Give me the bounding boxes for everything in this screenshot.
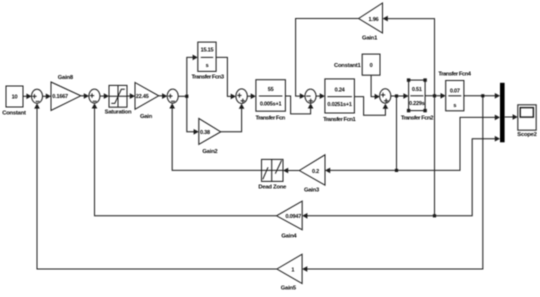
svg-text:0.1667: 0.1667 bbox=[52, 94, 68, 100]
gain Gain5 (1) pointing left bbox=[277, 254, 302, 291]
transfer function Transfer Fcn3 (15.15/s) bbox=[192, 42, 225, 80]
svg-text:Gain8: Gain8 bbox=[58, 75, 74, 81]
svg-text:Gain2: Gain2 bbox=[202, 149, 217, 155]
sum junction SumE (- left, + bottom) bbox=[305, 89, 316, 103]
svg-text:Transfer Fcn2: Transfer Fcn2 bbox=[401, 115, 433, 121]
gain Gain3 (0.2) pointing left bbox=[299, 155, 325, 194]
svg-text:0.229s: 0.229s bbox=[409, 101, 425, 107]
svg-text:10: 10 bbox=[12, 95, 18, 101]
svg-text:Gain1: Gain1 bbox=[362, 36, 378, 42]
svg-text:22.45: 22.45 bbox=[136, 94, 149, 100]
svg-text:15.15: 15.15 bbox=[201, 47, 214, 53]
svg-text:Constant1: Constant1 bbox=[334, 63, 362, 69]
node N4 junction between Transfer Fcn2 and Transfer Fcn4 bbox=[433, 94, 436, 97]
svg-text:1: 1 bbox=[291, 267, 294, 273]
svg-text:0.0251s+1: 0.0251s+1 bbox=[327, 102, 351, 108]
wire Transfer Fcn to SumE bottom (under-route) bbox=[285, 96, 313, 114]
gain Gain4 (0.0947) pointing left bbox=[277, 201, 303, 239]
wire SumD to Transfer Fcn bbox=[247, 93, 256, 99]
node N3 junction on Gain3 row bbox=[395, 169, 398, 172]
gain Gain (22.45) bbox=[135, 83, 159, 120]
sum junction SumB (+ left, - bottom) bbox=[89, 89, 100, 103]
wire Gain4 to SumB bottom bbox=[92, 103, 277, 216]
saturation block Saturation bbox=[105, 85, 132, 115]
wire Constant to SumA bbox=[23, 94, 32, 100]
scope block Scope2 bbox=[517, 105, 536, 138]
node N6 junction after Transfer Fcn4 bbox=[481, 94, 484, 97]
wire node N1 up to Transfer Fcn3 bbox=[187, 55, 198, 97]
wire Gain8 to SumB bbox=[81, 93, 89, 99]
wire Mux to Scope2 bbox=[505, 114, 518, 120]
svg-text:0.51: 0.51 bbox=[412, 87, 422, 93]
wire node N3 to Gain3 bbox=[325, 168, 397, 174]
wire Dead Zone to SumC bottom bbox=[169, 103, 261, 170]
svg-text:0.38: 0.38 bbox=[200, 130, 210, 136]
gain Gain1 (1.96) pointing left bbox=[359, 3, 383, 42]
node N2 junction after SumF bbox=[395, 94, 398, 97]
svg-text:1.96: 1.96 bbox=[369, 17, 379, 23]
wire Gain2 to SumD bottom bbox=[221, 104, 245, 132]
svg-text:0.07: 0.07 bbox=[450, 89, 460, 95]
svg-text:s: s bbox=[206, 63, 209, 69]
wire Constant1 to SumF left bbox=[371, 75, 380, 99]
wire Saturation to Gain bbox=[127, 93, 135, 99]
gain Gain8 (0.1667) bbox=[51, 75, 81, 110]
sum junction SumD (+ +) bbox=[236, 89, 247, 104]
wire SumA to Gain8 bbox=[43, 94, 52, 100]
sum junction SumF (+ +) bbox=[380, 89, 391, 103]
svg-text:Transfer Fcn: Transfer Fcn bbox=[255, 115, 285, 121]
svg-text:s: s bbox=[453, 103, 456, 109]
svg-text:0.2: 0.2 bbox=[312, 169, 319, 175]
gain Gain2 (0.38) bbox=[199, 118, 221, 154]
mux Mux (3 inputs) bbox=[500, 83, 505, 143]
wire Gain to SumC bbox=[159, 93, 168, 99]
svg-text:55: 55 bbox=[268, 87, 274, 93]
wire Transfer Fcn4 to Mux input 1 with node N6 bbox=[464, 93, 500, 99]
svg-text:Scope2: Scope2 bbox=[517, 132, 536, 138]
svg-text:Gain: Gain bbox=[140, 114, 153, 120]
wire SumC to node N1 bbox=[178, 95, 187, 97]
svg-text:0: 0 bbox=[370, 63, 373, 69]
transfer function Transfer Fcn4 (0.07/s) bbox=[438, 72, 471, 111]
wire node N5 to Mux input 3 bbox=[435, 136, 501, 216]
dead zone block Dead Zone bbox=[258, 159, 287, 190]
svg-text:0.24: 0.24 bbox=[335, 88, 346, 94]
wire node N5 to Gain4 bbox=[302, 213, 434, 219]
svg-text:Transfer Fcn3: Transfer Fcn3 bbox=[192, 74, 225, 80]
node N5 junction on Gain4 row bbox=[433, 214, 436, 217]
wire node N4 down to node N5 bbox=[434, 96, 436, 216]
svg-text:Saturation: Saturation bbox=[105, 109, 132, 115]
svg-text:Gain5: Gain5 bbox=[281, 286, 297, 292]
transfer function Transfer Fcn2 (0.51/0.229s) selected bbox=[401, 78, 433, 121]
svg-text:Gain3: Gain3 bbox=[304, 188, 320, 194]
svg-text:0.005s+1: 0.005s+1 bbox=[260, 102, 282, 108]
wire node N6 down to Gain5 bbox=[302, 96, 483, 272]
wire Gain3 to Dead Zone bbox=[283, 168, 299, 174]
wire node N4 up to Gain1 bbox=[383, 16, 435, 96]
svg-text:Constant: Constant bbox=[2, 111, 26, 117]
constant block Constant (value 10) bbox=[2, 86, 26, 117]
wire Gain5 to SumA bottom bbox=[34, 103, 277, 269]
svg-text:Transfer Fcn4: Transfer Fcn4 bbox=[438, 72, 471, 78]
node N1 branch junction bbox=[185, 95, 188, 98]
wire node N3 to Mux input 2 bbox=[397, 115, 501, 171]
sum junction SumA (+ left, - bottom) bbox=[32, 89, 43, 103]
sum junction SumC (+ left, - bottom) bbox=[167, 89, 178, 103]
transfer function Transfer Fcn1 (0.24/0.0251s+1) bbox=[323, 79, 356, 123]
constant block Constant1 (value 0) bbox=[334, 54, 380, 75]
wire Transfer Fcn2 to Transfer Fcn4 with node N4 bbox=[425, 93, 446, 99]
wire node N2 down to node N3 bbox=[396, 96, 398, 170]
wire node N1 down to Gain2 bbox=[187, 96, 199, 134]
svg-text:0.0947: 0.0947 bbox=[285, 214, 301, 220]
wire SumF to Transfer Fcn2 with node N2 bbox=[391, 93, 409, 99]
svg-text:Gain4: Gain4 bbox=[281, 233, 297, 239]
svg-text:Transfer Fcn1: Transfer Fcn1 bbox=[323, 117, 356, 123]
wire SumB to Saturation bbox=[100, 93, 109, 99]
wire Transfer Fcn3 to SumD left bbox=[216, 57, 236, 99]
wire Gain1 to SumE left bbox=[296, 19, 359, 99]
svg-text:Dead Zone: Dead Zone bbox=[258, 184, 287, 190]
transfer function Transfer Fcn (55/0.005s+1) bbox=[255, 80, 285, 122]
wire SumE to Transfer Fcn1 bbox=[316, 93, 325, 99]
wire Transfer Fcn1 to SumF bottom (under-route) bbox=[354, 97, 388, 116]
